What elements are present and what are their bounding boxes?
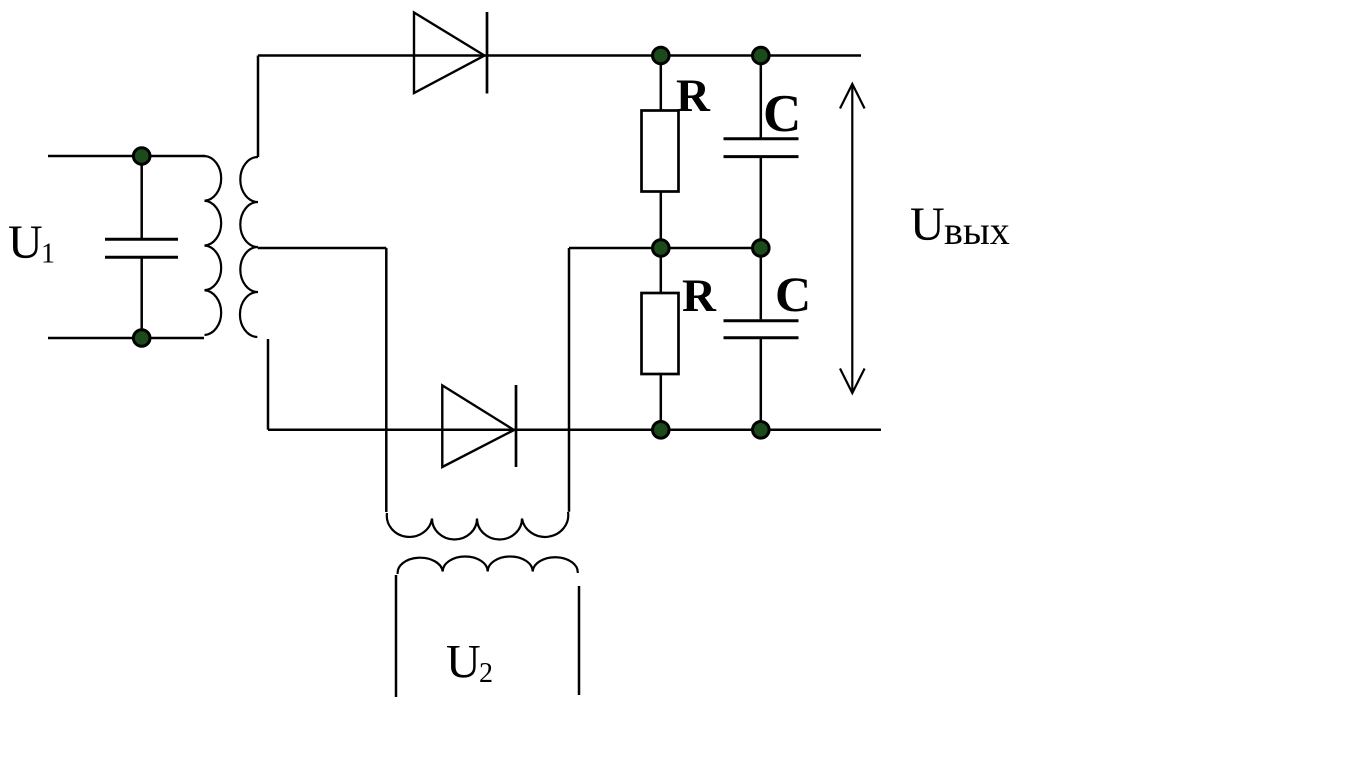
svg-text:2: 2: [479, 658, 493, 689]
node A (top-left junction): [133, 148, 150, 165]
wire U2 left terminal: [395, 575, 398, 697]
node D (top rail / C branch): [753, 47, 770, 64]
svg-text:U: U: [910, 198, 945, 251]
wire secondary bottom drop: [267, 339, 270, 430]
arrow Uout double-headed: [851, 84, 853, 393]
wire top rail: [258, 54, 861, 57]
capacitor C1 plates: [724, 139, 799, 157]
wire center tap left segment: [258, 247, 387, 250]
capacitor Cin vertical leads: [140, 156, 143, 238]
diode VD2: [442, 385, 514, 467]
wire U2 right terminal: [578, 586, 581, 695]
svg-text:U: U: [446, 636, 481, 689]
svg-text:C: C: [775, 266, 811, 322]
resistor R1 lead top: [660, 56, 663, 111]
wire bottom rail: [268, 429, 881, 432]
capacitor C1 lead bottom: [760, 158, 763, 248]
resistor R1 lead bottom: [660, 192, 663, 249]
diode VD1 cathode bar: [486, 12, 489, 94]
diode VD2 cathode bar: [515, 385, 518, 467]
svg-text:U: U: [8, 216, 43, 269]
svg-text:1: 1: [41, 239, 55, 270]
transformer T2 upper winding: [387, 512, 568, 540]
svg-text:C: C: [763, 85, 801, 143]
resistor R1: [642, 111, 679, 192]
transformer T1 secondary winding: [240, 157, 258, 337]
wire center tap riser down: [385, 248, 388, 512]
resistor R2: [642, 293, 679, 374]
transformer T1 primary winding: [205, 156, 222, 335]
wire right riser down: [568, 248, 571, 512]
transformer T2 lower winding: [398, 557, 578, 574]
node H (bottom rail / C branch): [753, 422, 770, 439]
resistor R2 lead top: [660, 248, 663, 293]
node G (bottom rail / R branch): [653, 422, 670, 439]
svg-text:R: R: [676, 70, 711, 122]
capacitor Cin plates: [105, 239, 178, 257]
capacitor C2 lead bottom: [760, 339, 763, 430]
capacitor C2 plates: [724, 321, 799, 338]
capacitor C1 lead top: [760, 56, 763, 138]
capacitor C2 lead top: [760, 248, 763, 319]
wire mid rail right segment: [569, 247, 761, 250]
node E (mid rail / R branch): [653, 240, 670, 257]
svg-text:R: R: [682, 270, 717, 322]
node F (mid rail / C branch): [753, 240, 770, 257]
resistor R2 lead bottom: [660, 374, 663, 430]
wire top-left input: [48, 155, 205, 158]
svg-text:вых: вых: [944, 208, 1010, 253]
wire secondary top riser: [257, 56, 260, 158]
wire bottom-left input: [48, 337, 204, 340]
node C (top rail / R branch): [653, 47, 670, 64]
diode VD1: [414, 13, 485, 94]
node B (bottom-left junction): [133, 330, 150, 347]
